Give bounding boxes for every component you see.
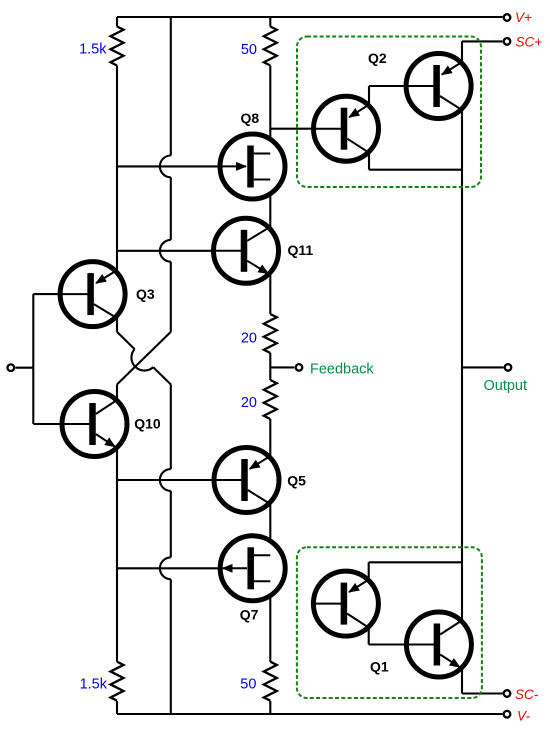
wire middle rail bottom segment bbox=[269, 701, 271, 714]
resistor 1.5k (bottom left) bbox=[111, 662, 124, 701]
wire bottom box upper horizontal emitter bbox=[369, 561, 462, 563]
svg-text:V-: V- bbox=[517, 709, 531, 724]
terminal SC- bbox=[504, 690, 511, 697]
wire middle rail through Q5 Q7 bbox=[269, 419, 271, 662]
terminal Output bbox=[505, 364, 512, 371]
wire left rail bottom segment bbox=[116, 701, 118, 714]
svg-text:Q7: Q7 bbox=[240, 607, 259, 623]
hop arc over Q7 emitter wire bbox=[160, 557, 171, 579]
wire SC- lead bbox=[462, 692, 503, 694]
resistor 20 (lower) bbox=[264, 380, 277, 419]
terminal V- bbox=[504, 711, 511, 718]
svg-text:Q5: Q5 bbox=[287, 472, 306, 488]
svg-text:Q11: Q11 bbox=[288, 242, 314, 258]
wire Q5 base row bbox=[117, 479, 243, 481]
wire top box lower horizontal collectors bbox=[369, 169, 462, 171]
resistor 50 (top) bbox=[264, 27, 277, 66]
svg-text:20: 20 bbox=[241, 395, 257, 411]
transistor Q1 output bbox=[406, 612, 471, 677]
wire top box upper horizontal to Q2 base bbox=[369, 85, 436, 87]
wire second vertical to bottom rail bbox=[170, 579, 172, 714]
terminal SC+ bbox=[504, 38, 511, 45]
wire Output lead bbox=[462, 366, 504, 368]
transistor Q5 bbox=[214, 448, 279, 513]
transistor Q2 output bbox=[406, 54, 471, 119]
wire input bus vertical bbox=[32, 294, 34, 424]
transistor Q10 bbox=[62, 392, 127, 457]
wire top box inner vertical bbox=[368, 86, 370, 170]
wire Q8 emitter row bbox=[117, 165, 250, 167]
terminal Feedback bbox=[296, 364, 303, 371]
transistor Q2 driver (in current limit box) bbox=[314, 96, 379, 161]
wire Feedback lead bbox=[270, 366, 294, 368]
svg-text:Q2: Q2 bbox=[368, 50, 387, 66]
wire middle rail between 20 ohm resistors bbox=[269, 353, 271, 380]
hop arc on backslash diagonal bbox=[131, 349, 153, 370]
wire crossover backslash diagonal upper bbox=[117, 332, 135, 349]
hop arc over Q8 emitter wire bbox=[160, 156, 171, 178]
svg-text:50: 50 bbox=[241, 42, 257, 58]
current limit box bottom (green dashed) bbox=[297, 547, 482, 698]
terminal V+ bbox=[504, 14, 511, 21]
wire Q10 base lead bbox=[33, 423, 90, 425]
transistor Q7 bbox=[220, 536, 285, 601]
svg-text:Q8: Q8 bbox=[241, 110, 260, 126]
wire bottom box lower horizontal to Q1 base bbox=[369, 643, 436, 645]
resistor 50 (bottom) bbox=[264, 662, 277, 701]
wire bottom box inner vertical bbox=[368, 562, 370, 644]
wire top rail V+ bbox=[117, 16, 503, 18]
svg-text:V+: V+ bbox=[515, 10, 532, 25]
svg-text:Q10: Q10 bbox=[134, 416, 161, 432]
wire Q11 base row bbox=[117, 250, 243, 252]
wire Q2 driver base from middle rail bbox=[270, 128, 343, 130]
wire crossover backslash diagonal lower bbox=[153, 367, 171, 384]
wire left rail through Q3 bbox=[116, 66, 118, 332]
transistor Q11 bbox=[214, 218, 279, 283]
wire Q3 base lead bbox=[33, 293, 90, 295]
svg-text:Feedback: Feedback bbox=[310, 362, 374, 378]
terminal input bbox=[8, 364, 15, 371]
wire bottom rail V- bbox=[117, 713, 503, 715]
wire input lead bbox=[15, 367, 33, 369]
hop arc over Q5 base wire bbox=[160, 469, 171, 491]
wire middle rail top segment bbox=[269, 17, 271, 27]
svg-text:Q3: Q3 bbox=[136, 286, 155, 302]
svg-text:Q1: Q1 bbox=[370, 659, 389, 675]
svg-text:50: 50 bbox=[240, 677, 256, 693]
wire second vertical segment bbox=[170, 177, 172, 240]
current limit box top (green dashed) bbox=[297, 37, 481, 188]
wire left rail lower through Q10 bbox=[116, 384, 118, 661]
svg-text:20: 20 bbox=[241, 331, 257, 347]
resistor 1.5k (top left) bbox=[111, 27, 124, 66]
wire second vertical top segment bbox=[170, 17, 172, 156]
wire right rail SC+ to SC- bbox=[461, 41, 463, 693]
wire middle rail through Q8 Q11 bbox=[269, 66, 271, 315]
wire left rail upper segment bbox=[116, 17, 118, 27]
transistor Q1 driver (in current limit box) bbox=[313, 571, 378, 636]
wire second vertical segment lower bbox=[170, 491, 172, 558]
wire second vertical below crossover bbox=[170, 384, 172, 469]
wire second vertical to crossover bbox=[170, 262, 172, 332]
resistor 20 (upper) bbox=[264, 314, 277, 353]
transistor Q8 bbox=[220, 134, 285, 199]
wire Q7 emitter row bbox=[117, 567, 250, 569]
svg-text:SC-: SC- bbox=[515, 687, 539, 702]
hop arc over Q11 base wire bbox=[160, 240, 171, 262]
svg-text:1.5k: 1.5k bbox=[80, 677, 108, 693]
svg-text:SC+: SC+ bbox=[516, 35, 543, 50]
svg-text:1.5k: 1.5k bbox=[79, 42, 107, 58]
svg-text:Output: Output bbox=[484, 378, 528, 394]
wire SC+ lead bbox=[462, 40, 503, 42]
transistor Q3 bbox=[60, 262, 125, 327]
wire crossover slash diagonal bbox=[117, 332, 171, 385]
